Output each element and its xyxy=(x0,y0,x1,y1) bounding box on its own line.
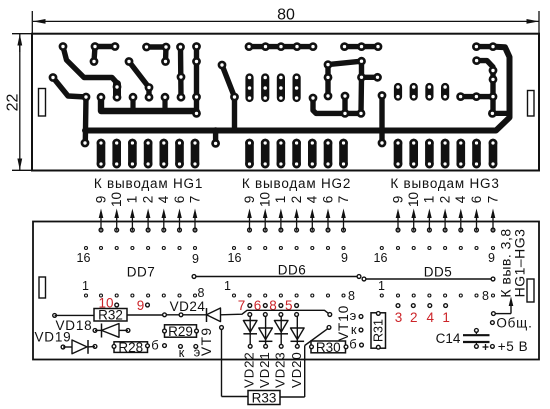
svg-text:1: 1 xyxy=(82,279,89,293)
svg-text:+5 В: +5 В xyxy=(498,339,529,354)
svg-text:1: 1 xyxy=(224,279,231,293)
svg-text:10: 10 xyxy=(109,192,124,207)
svg-text:9: 9 xyxy=(93,196,108,204)
svg-text:16: 16 xyxy=(374,251,388,265)
svg-text:VD20: VD20 xyxy=(289,351,304,388)
svg-text:4: 4 xyxy=(427,310,435,325)
svg-text:Общ.: Общ. xyxy=(496,316,532,331)
svg-text:4: 4 xyxy=(453,195,468,203)
svg-text:16: 16 xyxy=(77,251,91,265)
svg-text:R32: R32 xyxy=(98,308,123,323)
svg-text:9: 9 xyxy=(488,251,495,265)
svg-text:VD19: VD19 xyxy=(35,330,72,345)
svg-text:8: 8 xyxy=(198,286,205,300)
svg-text:8: 8 xyxy=(482,289,489,303)
svg-text:80: 80 xyxy=(277,7,295,24)
svg-text:2: 2 xyxy=(410,310,418,325)
svg-text:R30: R30 xyxy=(316,340,341,355)
svg-text:VT10: VT10 xyxy=(336,305,351,341)
svg-text:6: 6 xyxy=(172,196,187,204)
svg-text:9: 9 xyxy=(192,252,199,266)
svg-text:3: 3 xyxy=(395,310,403,325)
svg-text:DD6: DD6 xyxy=(278,263,307,278)
svg-text:1: 1 xyxy=(442,310,450,325)
svg-text:VD21: VD21 xyxy=(257,351,272,388)
svg-text:R28: R28 xyxy=(118,340,143,355)
svg-text:6: 6 xyxy=(469,196,484,204)
svg-text:1: 1 xyxy=(422,196,437,204)
svg-text:К выводам HG1: К выводам HG1 xyxy=(94,176,203,191)
svg-text:VT9: VT9 xyxy=(199,326,214,356)
svg-text:VD23: VD23 xyxy=(273,351,288,388)
svg-text:7: 7 xyxy=(485,196,500,204)
svg-text:4: 4 xyxy=(305,195,320,203)
svg-text:1: 1 xyxy=(378,279,385,293)
svg-text:2: 2 xyxy=(140,196,155,204)
svg-text:HG1–HG3: HG1–HG3 xyxy=(512,229,528,298)
svg-text:б: б xyxy=(151,338,158,353)
svg-text:7: 7 xyxy=(187,196,202,204)
svg-text:R33: R33 xyxy=(252,390,277,405)
svg-text:8: 8 xyxy=(348,289,355,303)
svg-text:2: 2 xyxy=(437,196,452,204)
svg-text:2: 2 xyxy=(289,196,304,204)
svg-text:10: 10 xyxy=(258,192,273,207)
svg-text:1: 1 xyxy=(125,196,140,204)
svg-text:16: 16 xyxy=(228,251,242,265)
svg-text:9: 9 xyxy=(341,251,348,265)
svg-text:7: 7 xyxy=(238,298,246,313)
svg-text:DD5: DD5 xyxy=(424,265,453,280)
svg-text:9: 9 xyxy=(390,196,405,204)
svg-text:DD7: DD7 xyxy=(127,265,156,280)
svg-text:9: 9 xyxy=(242,196,257,204)
svg-text:C14: C14 xyxy=(436,331,461,346)
svg-text:К выводам HG2: К выводам HG2 xyxy=(242,176,351,191)
svg-text:VD22: VD22 xyxy=(242,351,257,388)
svg-text:22: 22 xyxy=(4,94,21,112)
svg-text:R31: R31 xyxy=(372,319,386,342)
svg-text:6: 6 xyxy=(320,196,335,204)
svg-text:VD24: VD24 xyxy=(170,299,206,314)
svg-text:К выводам HG3: К выводам HG3 xyxy=(390,176,499,191)
svg-text:к: к xyxy=(351,322,357,337)
svg-text:10: 10 xyxy=(406,192,421,207)
svg-text:R29: R29 xyxy=(168,324,193,339)
svg-text:4: 4 xyxy=(156,195,171,203)
svg-text:к: к xyxy=(179,345,185,360)
svg-text:1: 1 xyxy=(273,196,288,204)
svg-text:7: 7 xyxy=(336,196,351,204)
svg-text:9: 9 xyxy=(137,298,145,313)
